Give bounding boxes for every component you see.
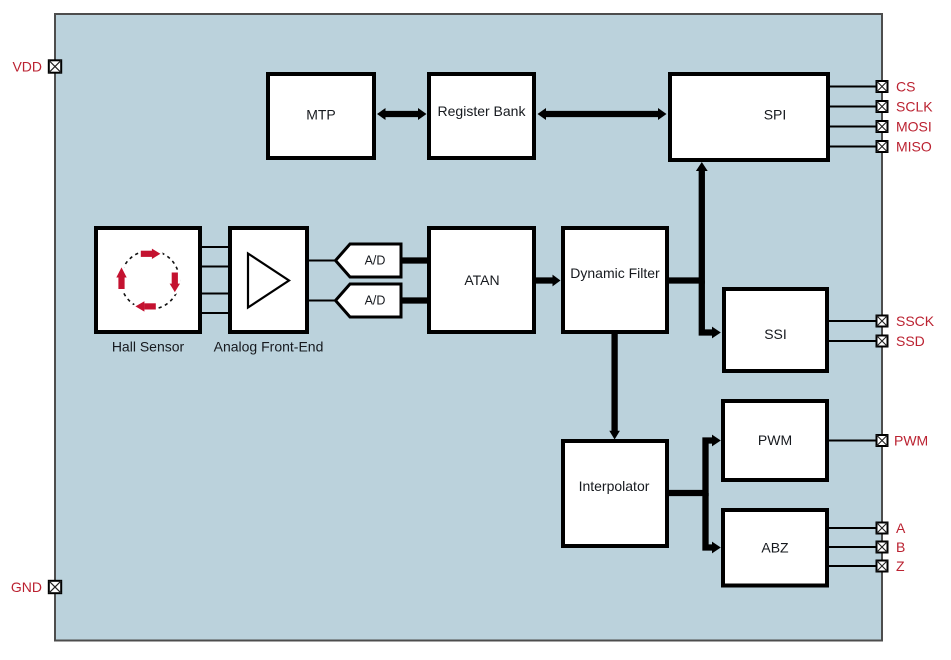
- wire AFE to AD2: [307, 300, 336, 302]
- block Analog Front-End: [230, 228, 307, 332]
- icon arrow bottom (left): [135, 301, 155, 311]
- wire ABZ to A pin: [829, 527, 876, 529]
- wire SPI to SCLK pin: [829, 106, 876, 108]
- wire DynamicFilter down to Interpolator: [609, 334, 620, 440]
- svg-text:ATAN: ATAN: [464, 272, 499, 288]
- wire SPI to CS pin: [829, 86, 876, 88]
- svg-text:GND: GND: [11, 579, 42, 595]
- svg-text:PWM: PWM: [758, 432, 792, 448]
- block AD1: [336, 244, 402, 277]
- block Dynamic Filter: [563, 228, 667, 332]
- svg-text:A/D: A/D: [365, 294, 386, 308]
- pin GND: [49, 581, 61, 593]
- block Hall Sensor: [96, 228, 200, 332]
- wire PWM to PWM pin: [829, 440, 876, 442]
- wire SSI to SSD pin: [829, 340, 876, 342]
- icon rotating field (dashed circle): [121, 251, 180, 310]
- pin MISO: [877, 141, 888, 152]
- svg-text:CS: CS: [896, 79, 915, 95]
- pin SSD: [877, 336, 888, 347]
- pin CS: [877, 81, 888, 92]
- svg-text:SSCK: SSCK: [896, 313, 935, 329]
- wire AD1 to ATAN: [400, 257, 429, 263]
- block PWM: [723, 401, 827, 480]
- svg-text:ABZ: ABZ: [761, 540, 789, 556]
- wire Interpolator trunk down to ABZ: [706, 493, 721, 553]
- svg-text:PWM: PWM: [894, 433, 928, 449]
- svg-text:SSI: SSI: [764, 326, 787, 342]
- wire SSI to SSCK pin: [829, 320, 876, 322]
- pin PWM: [877, 435, 888, 446]
- wire ABZ to B pin: [829, 546, 876, 548]
- wire Hall to AFE lines: [200, 247, 230, 313]
- svg-text:Interpolator: Interpolator: [579, 478, 650, 494]
- pin A: [877, 523, 888, 534]
- svg-text:A: A: [896, 520, 906, 536]
- wire DynamicFilter trunk down to SSI: [702, 281, 721, 339]
- block ATAN: [429, 228, 534, 332]
- svg-text:SPI: SPI: [764, 107, 787, 123]
- svg-text:Analog Front-End: Analog Front-End: [214, 339, 324, 355]
- block Interpolator: [563, 441, 667, 546]
- wire SPI to MISO pin: [829, 146, 876, 148]
- wire ABZ to Z pin: [829, 565, 876, 567]
- svg-text:B: B: [896, 539, 905, 555]
- svg-text:Z: Z: [896, 558, 905, 574]
- pin VDD: [49, 60, 61, 72]
- wire MTP-RegisterBank double arrow: [377, 108, 427, 120]
- block MTP: [268, 74, 374, 158]
- block SSI: [724, 289, 827, 371]
- svg-text:MISO: MISO: [896, 139, 932, 155]
- wire AFE to AD1: [307, 260, 336, 262]
- svg-text:Register Bank: Register Bank: [438, 103, 527, 119]
- wire RegisterBank-SPI double arrow: [538, 108, 667, 120]
- wire DynamicFilter to SPI (up trunk): [668, 162, 708, 281]
- svg-text:MOSI: MOSI: [896, 119, 932, 135]
- svg-text:SCLK: SCLK: [896, 99, 933, 115]
- block Register Bank: [429, 74, 534, 158]
- wire ATAN to DynamicFilter arrow: [536, 275, 561, 287]
- wire SPI to MOSI pin: [829, 126, 876, 128]
- svg-text:Hall Sensor: Hall Sensor: [112, 339, 185, 355]
- wire AD2 to ATAN: [400, 297, 429, 303]
- pin SCLK: [877, 101, 888, 112]
- block SPI: [670, 74, 828, 160]
- block ABZ: [723, 510, 827, 586]
- pin MOSI: [877, 121, 888, 132]
- icon arrow left (up): [116, 267, 126, 289]
- wire Interpolator to PWM: [669, 435, 721, 493]
- svg-text:SSD: SSD: [896, 333, 925, 349]
- svg-text:VDD: VDD: [12, 59, 42, 75]
- svg-text:MTP: MTP: [306, 107, 336, 123]
- block AD2: [336, 284, 402, 317]
- svg-text:A/D: A/D: [365, 254, 386, 268]
- icon arrow top (right): [141, 249, 161, 259]
- icon arrow right (down): [170, 273, 180, 293]
- svg-text:Dynamic Filter: Dynamic Filter: [570, 265, 660, 281]
- pin B: [877, 542, 888, 553]
- pin Z: [877, 561, 888, 572]
- pin SSCK: [877, 316, 888, 327]
